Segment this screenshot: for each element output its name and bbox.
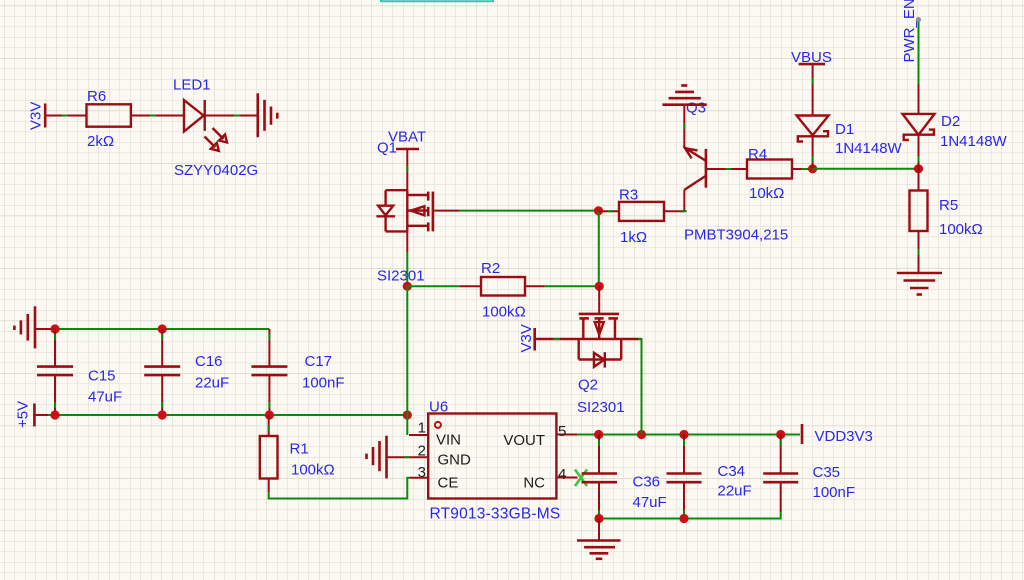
label C16 <box>195 353 223 370</box>
resistor R3 <box>619 202 664 221</box>
wire ground to top rail <box>35 328 55 330</box>
pin 4 NC stub <box>556 477 577 479</box>
svg-text:100kΩ: 100kΩ <box>482 304 526 321</box>
svg-text:R4: R4 <box>748 146 767 163</box>
power flag +5V <box>15 401 35 428</box>
label Q3 <box>686 100 706 117</box>
power flag VDD3V3 <box>802 424 873 445</box>
svg-text:R2: R2 <box>481 260 500 277</box>
power flag V3V (Q2) <box>518 324 535 352</box>
wire +5V rail (green) <box>34 414 407 416</box>
svg-text:100kΩ: 100kΩ <box>291 462 335 479</box>
label 47uF (C36) <box>633 494 667 511</box>
junction node (598.5,211) <box>594 206 603 215</box>
label SZYY0402G <box>174 162 258 179</box>
wire R3 to Q3 collector <box>664 190 687 211</box>
wire Q2 drain to VOUT rail (green) <box>638 339 642 435</box>
svg-text:1kΩ: 1kΩ <box>620 229 647 246</box>
transistor Q3 (PMBT3904,215 NPN) <box>684 147 726 190</box>
svg-text:Q2: Q2 <box>578 377 598 394</box>
junction (162,329) <box>158 324 167 333</box>
pin name GND <box>438 452 472 469</box>
label 22uF (C16) <box>195 375 229 392</box>
svg-text:5: 5 <box>558 423 566 440</box>
wire Q3 emitter to ground <box>683 105 685 148</box>
wire VBAT to Q1 drain <box>406 149 408 190</box>
wire PWR_EN to D2 <box>918 22 920 114</box>
label 1kΩ (R3) <box>620 229 647 246</box>
power flag VBUS <box>791 49 832 66</box>
svg-text:4: 4 <box>558 466 566 483</box>
ground (below C36) <box>577 541 621 559</box>
IC U6 (RT9013-33GB-MS) body <box>428 414 556 499</box>
wire R1 to CE (green) <box>269 478 410 499</box>
ground (right of LED1) <box>258 93 278 137</box>
ground (U6 GND pin) <box>367 436 387 479</box>
label R3 <box>619 187 638 204</box>
svg-text:C34: C34 <box>718 463 746 480</box>
pin number 2 <box>418 443 426 460</box>
svg-text:VOUT: VOUT <box>503 432 545 449</box>
wire R5 to ground <box>918 231 920 273</box>
wire V3V to Q2 source (green tick) <box>553 338 560 340</box>
wire Q2 gate lead <box>598 286 600 314</box>
resistor R5 <box>910 191 928 232</box>
svg-text:Q1: Q1 <box>377 140 397 157</box>
label 100kΩ (R1) <box>291 462 335 479</box>
svg-text:22uF: 22uF <box>718 483 752 500</box>
label R1 <box>290 441 309 458</box>
label D2 <box>941 113 960 130</box>
svg-text:U6: U6 <box>429 399 448 416</box>
svg-text:SI2301: SI2301 <box>577 399 625 416</box>
label R6 <box>87 88 106 105</box>
junction node B (599.5,286) <box>595 282 604 291</box>
label SI2301 (Q2) <box>577 399 625 416</box>
svg-text:47uF: 47uF <box>633 494 667 511</box>
capacitor C36 (47uF) <box>582 435 618 519</box>
wire node A to R2 <box>407 285 481 287</box>
pin 3 CE stub <box>410 477 429 479</box>
svg-text:Q3: Q3 <box>686 100 706 117</box>
pin 1 indicator circle <box>435 422 441 428</box>
resistor R2 <box>481 277 525 296</box>
junction (684,434.5) <box>679 430 688 439</box>
label LED1 <box>173 77 211 94</box>
svg-text:V3V: V3V <box>518 324 535 352</box>
pin number 3 <box>418 464 426 481</box>
wire R3 left lead <box>599 210 620 212</box>
label C34 <box>718 463 746 480</box>
transistor Q2 (SI2301 PMOS with body diode) <box>535 314 641 368</box>
label C36 <box>633 474 661 491</box>
capacitor C15 (47uF) <box>37 329 73 415</box>
ground (below R5) <box>897 273 942 295</box>
wire D1 to node C <box>812 136 814 169</box>
svg-text:R6: R6 <box>87 88 106 105</box>
svg-text:22uF: 22uF <box>195 375 229 392</box>
pin name CE <box>438 475 459 492</box>
svg-text:2kΩ: 2kΩ <box>87 133 114 150</box>
svg-text:3: 3 <box>418 464 426 481</box>
svg-text:GND: GND <box>438 452 472 469</box>
capacitor C17 (100nF) <box>251 329 287 415</box>
svg-text:+5V: +5V <box>15 401 32 428</box>
resistor R4 <box>747 160 792 179</box>
label 100kΩ (R5) <box>939 221 983 238</box>
label 100nF (C35) <box>813 484 856 501</box>
svg-text:47uF: 47uF <box>88 389 122 406</box>
pin name NC <box>523 475 545 492</box>
label D1 <box>835 121 854 138</box>
svg-text:100kΩ: 100kΩ <box>939 221 983 238</box>
label 100nF (C17) <box>302 375 345 392</box>
wire VBUS to D1 <box>812 64 814 115</box>
LED LED1 <box>184 100 227 151</box>
junction (641.5,434.5) <box>637 430 646 439</box>
svg-text:100nF: 100nF <box>813 484 856 501</box>
label R5 <box>939 197 958 214</box>
svg-text:NC: NC <box>523 475 545 492</box>
power flag VBAT <box>388 129 426 150</box>
wire node C to node D (green) <box>813 168 919 170</box>
wire top cap rail (green) <box>55 328 269 330</box>
ground (left of top cap rail) <box>14 306 35 348</box>
wire Q3 base to R4 <box>726 168 748 170</box>
svg-text:2: 2 <box>418 443 426 460</box>
pin 5 VOUT stub <box>556 434 577 436</box>
capacitor C34 (22uF) <box>667 435 702 519</box>
label C15 <box>88 368 116 385</box>
svg-text:C36: C36 <box>633 474 661 491</box>
power flag V3V (left) <box>28 102 46 130</box>
label 2kΩ <box>87 133 114 150</box>
svg-text:D1: D1 <box>835 121 854 138</box>
pin name VIN <box>436 432 461 449</box>
label 10kΩ (R4) <box>749 185 784 202</box>
junction node C (813,168.8) <box>808 164 817 173</box>
svg-text:R3: R3 <box>619 187 638 204</box>
diode D1 (1N4148W) <box>797 116 829 142</box>
label RT9013-33GB-MS <box>430 506 561 523</box>
wire LED1 to ground <box>205 115 258 117</box>
junction node D (918.5,168.8) <box>914 164 923 173</box>
pin name VOUT <box>503 432 545 449</box>
svg-text:RT9013-33GB-MS: RT9013-33GB-MS <box>430 506 561 523</box>
label Q1 <box>377 140 397 157</box>
label 22uF (C34) <box>718 483 752 500</box>
svg-text:VIN: VIN <box>436 432 461 449</box>
wire node D to R5 <box>918 169 920 191</box>
no-connect X on pin 4 <box>575 470 587 487</box>
svg-text:10kΩ: 10kΩ <box>749 185 784 202</box>
wire Q1 source down to node A <box>406 231 408 286</box>
svg-text:SZYY0402G: SZYY0402G <box>174 162 258 179</box>
svg-text:1N4148W: 1N4148W <box>940 133 1008 150</box>
selection box remnant (teal) <box>381 0 493 1</box>
wire Q1 gate row (green) <box>459 210 599 212</box>
wire R2 to node B <box>525 285 600 287</box>
svg-text:VDD3V3: VDD3V3 <box>815 428 873 445</box>
label C17 <box>305 353 333 370</box>
junction (55,415) <box>50 410 59 419</box>
pin 1 VIN stub <box>409 434 428 436</box>
capacitor C35 (100nF) <box>763 435 798 513</box>
svg-text:C35: C35 <box>813 464 841 481</box>
junction (269,415) <box>265 410 274 419</box>
dangling wire end dot (PWR_EN) <box>916 17 921 22</box>
label 100kΩ (R2) <box>482 304 526 321</box>
svg-text:PMBT3904,215: PMBT3904,215 <box>684 227 788 244</box>
junction (598.5,434.5) <box>594 430 603 439</box>
ground (above Q3, inverted) <box>662 86 706 105</box>
svg-text:1N4148W: 1N4148W <box>835 140 903 157</box>
net label PWR_EN <box>901 0 918 63</box>
label Q2 <box>578 377 598 394</box>
svg-text:PWR_EN: PWR_EN <box>901 0 918 63</box>
capacitor C16 (22uF) <box>144 329 180 415</box>
pin number 1 <box>418 420 426 437</box>
svg-text:SI2301: SI2301 <box>377 268 425 285</box>
svg-text:CE: CE <box>438 475 459 492</box>
label 1N4148W (D1) <box>835 140 903 157</box>
wire VOUT rail (green) <box>578 434 800 436</box>
junction (162,415) <box>158 410 167 419</box>
svg-text:LED1: LED1 <box>173 77 211 94</box>
wire node A down to VIN (green) <box>406 286 408 435</box>
junction (407,415) <box>403 410 412 419</box>
wire R6 to LED1 <box>131 115 184 117</box>
junction (599,518.5) <box>594 514 603 523</box>
diode D2 (1N4148W) <box>903 114 935 140</box>
svg-text:1: 1 <box>418 420 426 437</box>
svg-text:R1: R1 <box>290 441 309 458</box>
wire C36 to ground <box>598 519 600 541</box>
junction node A (407,286) <box>403 282 412 291</box>
svg-text:R5: R5 <box>939 197 958 214</box>
pin 2 GND stub <box>387 456 429 458</box>
wire R4 to node C <box>792 168 813 170</box>
label R4 <box>748 146 767 163</box>
svg-text:VBUS: VBUS <box>791 49 832 66</box>
svg-text:C16: C16 <box>195 353 223 370</box>
svg-text:100nF: 100nF <box>302 375 345 392</box>
wire V3V to R6 <box>45 115 86 117</box>
wire bottom cap rail (green) <box>599 512 781 519</box>
transistor Q1 (SI2301 PMOS with body diode) <box>376 190 459 231</box>
label PMBT3904,215 <box>684 227 788 244</box>
svg-text:C15: C15 <box>88 368 116 385</box>
svg-text:D2: D2 <box>941 113 960 130</box>
wire D2 to node D <box>918 135 920 169</box>
junction (780.7,434.5) <box>776 430 785 439</box>
svg-text:V3V: V3V <box>28 102 45 130</box>
pin number 4 <box>558 466 566 483</box>
resistor R6 <box>87 104 131 126</box>
pin number 5 <box>558 423 566 440</box>
label 47uF (C15) <box>88 389 122 406</box>
wire node to node B (green vertical) <box>598 211 600 286</box>
junction (684,518.5) <box>679 514 688 523</box>
label 1N4148W (D2) <box>940 133 1008 150</box>
junction (55,329) <box>50 324 59 333</box>
label R2 <box>481 260 500 277</box>
label C35 <box>813 464 841 481</box>
label SI2301 (Q1) <box>377 268 425 285</box>
resistor R1 (100k) <box>260 415 278 492</box>
svg-text:C17: C17 <box>305 353 333 370</box>
label U6 <box>429 399 448 416</box>
